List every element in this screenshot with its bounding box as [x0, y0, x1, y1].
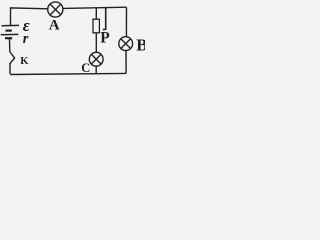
svg-text:P: P: [100, 30, 110, 47]
lamp C: [89, 52, 103, 66]
wire: top left segment: [11, 8, 48, 26]
wire: lamp C to bottom: [95, 66, 97, 74]
resistor box: [93, 19, 99, 33]
wire: top middle segment: [63, 7, 127, 8]
svg-text:C: C: [81, 61, 90, 75]
wire: resistor to lamp C: [95, 33, 97, 53]
svg-text:A: A: [49, 17, 60, 33]
lamp B: [119, 37, 133, 51]
wire: left lower segment (switch to corner): [9, 64, 11, 75]
rheostat P branch wire (top): [95, 8, 97, 20]
svg-text:r: r: [23, 31, 29, 47]
svg-text:K: K: [20, 56, 29, 67]
slider wire with hook: [103, 8, 106, 30]
wire: battery to switch: [9, 39, 11, 52]
wire: right segment down to lamp B: [125, 7, 127, 37]
wire: lamp B to bottom-right corner: [125, 51, 127, 74]
switch K: [10, 52, 15, 64]
svg-text:B: B: [136, 36, 145, 55]
wire: bottom segment: [10, 73, 126, 74]
paper background: [0, 0, 145, 83]
battery (two cells): [1, 25, 19, 38]
lamp A: [48, 2, 63, 17]
